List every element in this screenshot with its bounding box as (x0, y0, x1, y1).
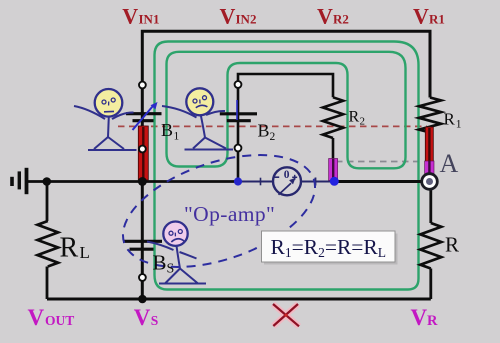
label VR1 (413, 4, 445, 29)
node A (422, 174, 438, 190)
meter minus terminal tick (260, 178, 262, 186)
red X mark (273, 304, 299, 326)
svg-text:S: S (151, 313, 159, 328)
label RL (60, 233, 90, 264)
wire node A down through R to bottom rail (429, 189, 432, 299)
wire top rail and left/right branches (142, 31, 430, 299)
svg-text:IN2: IN2 (236, 12, 257, 27)
wire R2 bottom lead (332, 138, 335, 160)
svg-text:V: V (413, 4, 429, 29)
svg-text:1: 1 (174, 131, 180, 143)
label VR (411, 305, 439, 330)
node A level gray dashed line (336, 161, 424, 163)
wire B2 column and link to R2 top (238, 74, 333, 182)
B2 polarity mark (236, 100, 238, 120)
junction bottom-left node (138, 295, 147, 304)
wiper-position red dashed line (118, 125, 427, 127)
label B1 (161, 120, 180, 143)
svg-text:"Op-amp": "Op-amp" (184, 202, 275, 226)
wire RL branch (46, 182, 49, 300)
svg-text:A: A (440, 149, 459, 178)
label VOUT (28, 305, 75, 330)
resistor R (420, 223, 441, 269)
wire to node A (334, 180, 430, 183)
junction left-wire node (138, 177, 147, 186)
svg-text:S: S (167, 262, 175, 277)
green current loop (inner snake) (167, 52, 406, 169)
label R2 (349, 109, 366, 128)
ground (10, 168, 28, 194)
formula box (264, 234, 398, 265)
label BS (153, 251, 175, 277)
terminal B2 bottom (235, 145, 242, 152)
terminal B2 top (235, 81, 242, 88)
junction blue node B2 bottom (234, 177, 242, 185)
wire ground to meter branch (28, 180, 238, 183)
svg-text:OUT: OUT (45, 313, 74, 328)
svg-text:V: V (411, 305, 428, 330)
svg-text:B: B (153, 251, 167, 275)
svg-text:R: R (445, 233, 459, 257)
svg-text:R: R (60, 233, 79, 264)
label VR2 (317, 4, 349, 29)
terminal B1 bottom (139, 146, 146, 153)
svg-text:B: B (258, 120, 270, 140)
battery B1 adjustment arrow (133, 107, 153, 131)
label B2 (258, 120, 276, 143)
op-amp dashed ellipse boundary (109, 133, 329, 289)
svg-text:V: V (317, 4, 333, 29)
stick figure for BS (sad) (147, 222, 206, 284)
R1 red wiper bar (425, 127, 433, 162)
svg-text:V: V (220, 4, 236, 29)
svg-text:L: L (80, 243, 90, 262)
svg-text:2: 2 (270, 131, 276, 143)
junction blue node R2 bottom (330, 177, 339, 186)
stick figure for B2 (162, 88, 233, 149)
svg-text:V: V (134, 305, 151, 330)
svg-text:0: 0 (284, 169, 290, 181)
resistor R1 (419, 98, 441, 133)
svg-text:IN1: IN1 (139, 12, 160, 27)
wire meter branch (navy) (238, 181, 334, 183)
svg-text:B: B (161, 120, 173, 140)
svg-text:V: V (122, 4, 138, 29)
svg-text:2: 2 (360, 116, 366, 128)
junction ground node (43, 177, 52, 186)
svg-text:R: R (427, 313, 438, 329)
stick figure for B1 (74, 89, 137, 150)
svg-text:1: 1 (456, 119, 462, 131)
svg-text:R: R (444, 110, 456, 129)
R2 column magenta bar (329, 159, 338, 181)
svg-text:V: V (28, 305, 45, 330)
node A magenta bar (425, 161, 434, 174)
terminal BS bottom (139, 274, 146, 281)
terminal B1 top (139, 82, 146, 89)
label VS (134, 305, 159, 330)
svg-text:R2: R2 (333, 12, 349, 27)
battery BS plates (123, 240, 162, 243)
label VIN1 (122, 4, 159, 29)
battery B2 plates (220, 112, 257, 115)
galvanometer meter (273, 167, 301, 195)
meter plus terminal tick (315, 178, 317, 186)
battery B1 plates (126, 112, 162, 115)
svg-text:R1: R1 (429, 12, 445, 27)
label VIN2 (220, 4, 257, 29)
label R1 (444, 110, 462, 131)
B1 red wiper bar (138, 126, 148, 180)
svg-text:R: R (349, 109, 360, 126)
resistor RL (38, 221, 59, 267)
wire bottom rail (47, 298, 431, 301)
resistor R2 (323, 97, 343, 138)
green current loop (outer) (155, 42, 419, 290)
